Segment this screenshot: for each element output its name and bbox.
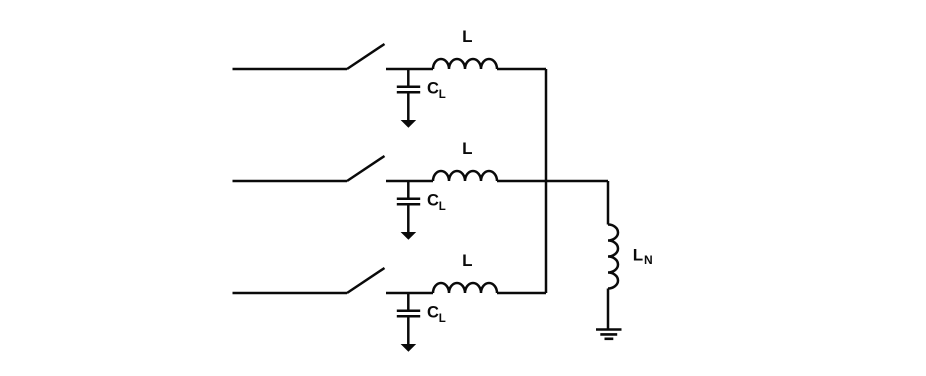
svg-text:L: L [462, 139, 472, 158]
svg-text:L: L [633, 246, 643, 265]
svg-text:L: L [439, 89, 446, 101]
svg-text:L: L [439, 313, 446, 325]
svg-text:L: L [462, 251, 472, 270]
svg-text:L: L [439, 201, 446, 213]
svg-text:C: C [427, 192, 439, 210]
svg-text:N: N [644, 253, 653, 267]
svg-text:L: L [462, 27, 472, 46]
svg-text:C: C [427, 80, 439, 98]
svg-text:C: C [427, 304, 439, 322]
